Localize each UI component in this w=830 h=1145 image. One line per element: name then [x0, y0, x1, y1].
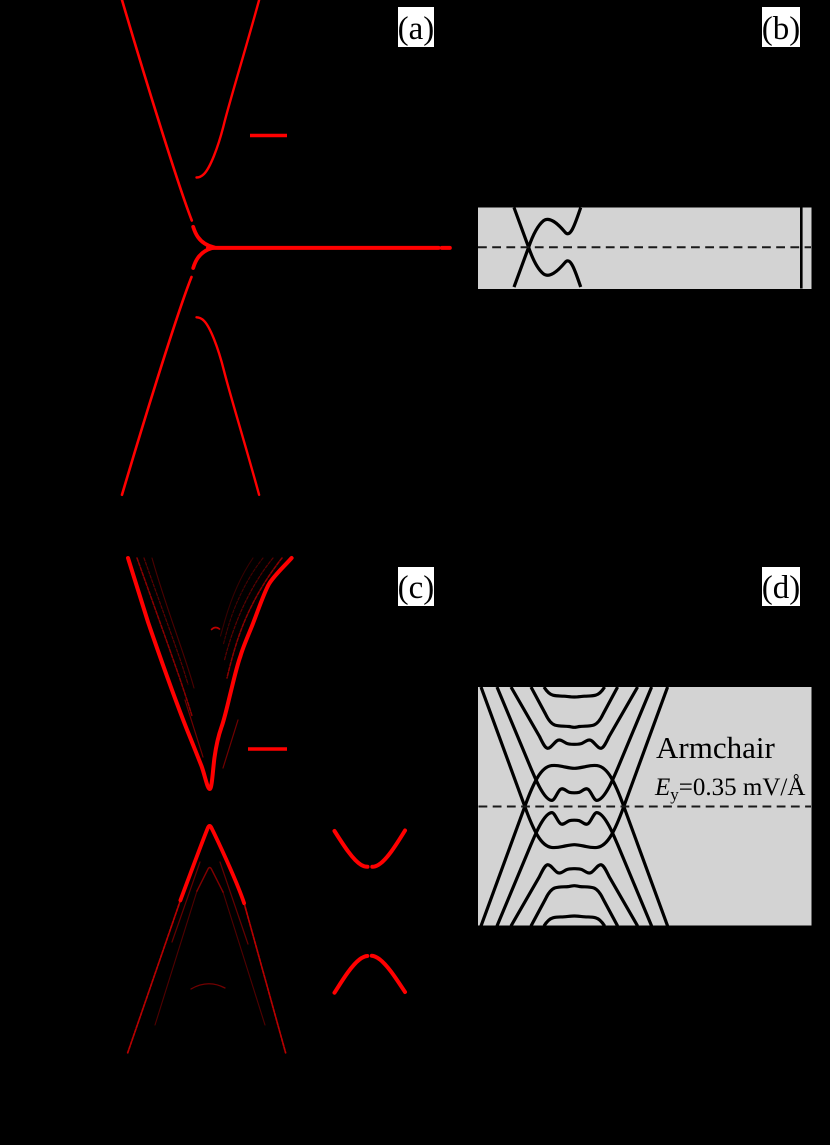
svg-text:(b): (b)	[762, 11, 800, 47]
svg-text:(c): (c)	[398, 570, 435, 606]
panel (c) faint inner subband left 2	[144, 558, 188, 684]
panel (c) valence doublet near right arm	[220, 862, 248, 944]
panel (c) valence right arm faint	[244, 903, 286, 1053]
panel (c) small conduction U left half	[335, 831, 368, 867]
label (c) box	[398, 567, 434, 606]
panel (c) valence inner faint line right	[223, 892, 265, 1025]
panel (c) valence inner faint line left	[155, 891, 197, 1025]
panel (d) Dirac line left	[481, 687, 525, 807]
panel (c) faint doubling near right arm	[223, 720, 238, 768]
Fermi-level marker dash panel (a)	[250, 134, 287, 137]
panel (d) gray plot box	[478, 687, 812, 926]
panel (c) valence doublet near left arm	[172, 862, 200, 942]
panel (c) faint inner subband right 4	[221, 558, 254, 636]
svg-text:(a): (a)	[398, 11, 435, 47]
panel (d) shoulder band u2	[497, 687, 652, 800]
panel (c) faint inner subband right 1	[227, 558, 282, 678]
panel (b) band b1 crossing down	[514, 208, 581, 288]
flat band at E=0	[208, 246, 439, 250]
band a1m hook into flat band (mirror)	[193, 248, 214, 269]
panel (c) small conduction U right half	[372, 831, 405, 867]
band a1m lower-left linear band (mirror)	[122, 277, 192, 495]
panel (d) wavy band W1	[544, 687, 605, 697]
svg-text:Armchair: Armchair	[656, 730, 775, 765]
panel (c) valence inner subband arc	[197, 868, 223, 893]
panel (c) faint inner subband right 2	[225, 558, 274, 660]
panel (c) subband minimum arc	[212, 628, 220, 630]
panel (d) wavy band W2	[531, 687, 618, 727]
label (a) box	[398, 7, 434, 47]
band a2 upper-right parabolic band	[197, 0, 260, 178]
panel (c) faint inner subband left 1	[137, 558, 192, 716]
panel (c) valence Lambda bright apex	[180, 826, 244, 903]
svg-text:(d): (d)	[762, 570, 800, 606]
panel (c) faint inner subband right 3	[224, 558, 264, 644]
panel (c) small valence cap right half	[372, 956, 405, 992]
panel (b) zone-boundary vertical line	[800, 208, 803, 289]
panel (d) Dirac line right	[624, 687, 668, 807]
panel (c) faint inner subband left 3	[152, 558, 194, 688]
panel (d) Fermi dashed line	[479, 806, 812, 808]
flat band dashed tail	[442, 246, 450, 250]
band a2m lower-right parabolic band (mirror)	[197, 317, 260, 495]
band a1 upper-left linear band	[122, 0, 192, 221]
panel (c) conduction V left arm bright	[128, 558, 292, 789]
panel (b) Fermi dashed line	[478, 246, 811, 248]
panel (c) Fermi-level marker dash	[248, 747, 287, 751]
label (d) box	[762, 567, 800, 606]
panel (b) band b2 crossing up	[514, 208, 581, 288]
label (b) box	[762, 7, 800, 47]
panel (d) wavy band W3	[511, 687, 638, 748]
band a1 hook into flat band	[193, 227, 214, 248]
panel (c) valence left arm faint	[128, 900, 181, 1053]
panel (c) valence faint cap arc	[191, 984, 225, 989]
panel (d) horned band X1-X2	[525, 765, 624, 806]
panel (b) gray plot box	[478, 208, 812, 290]
panel (c) small valence cap left half	[335, 956, 368, 993]
panel (c) faint doubling near left arm	[185, 700, 203, 757]
